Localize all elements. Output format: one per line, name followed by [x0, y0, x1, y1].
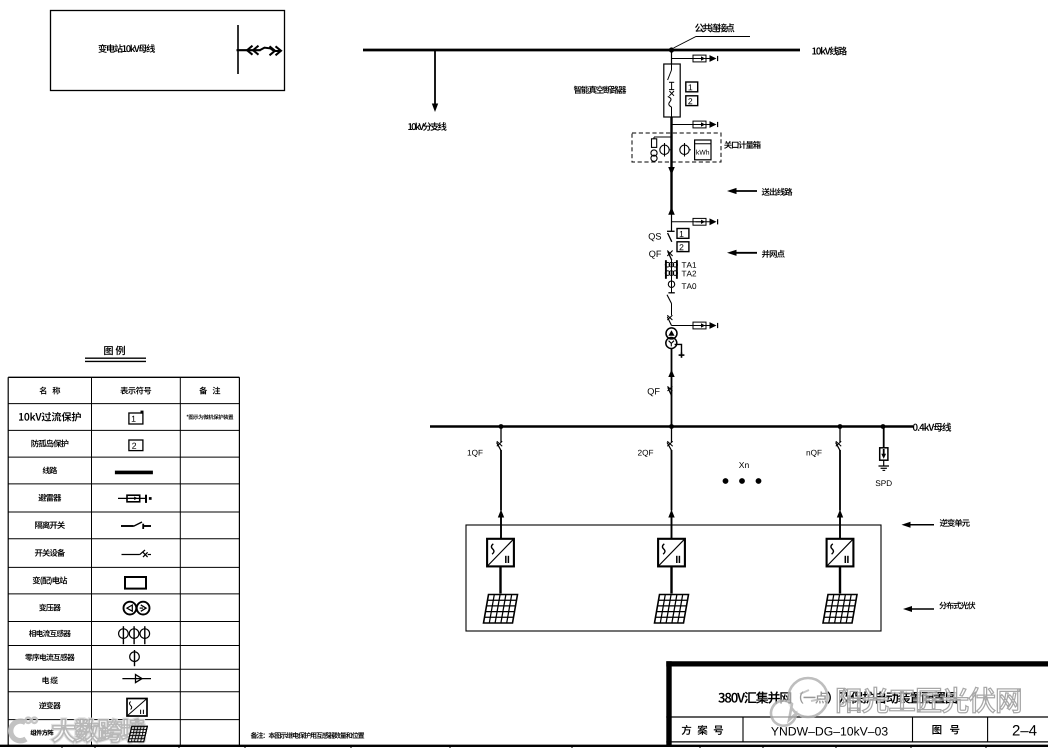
- legend name 相电流互感器: [29, 630, 36, 637]
- transformer winding 2: [666, 338, 677, 349]
- phase CT TA1 TA2 bars: [665, 260, 667, 279]
- wire PCC to breaker: [671, 50, 673, 64]
- legend sym: PV array: [128, 726, 147, 742]
- title block top border: [666, 661, 1048, 666]
- legend sym: arrester: [118, 497, 146, 499]
- feeder nQF wire: [839, 427, 841, 443]
- legend name 逆变器: [39, 702, 46, 709]
- feeder breaker 1QF: [497, 441, 502, 446]
- label 送出线路 with arrow: [735, 190, 757, 192]
- wire to QS: [671, 213, 673, 231]
- surge arrester tap upper: [672, 58, 710, 60]
- legend name 零序电流互感器: [25, 654, 32, 661]
- feeder breaker nQF: [836, 441, 841, 446]
- legend name 避雷器: [38, 494, 46, 502]
- title text: [718, 693, 724, 703]
- label SPD: [876, 480, 881, 486]
- node: point of common coupling: [669, 47, 674, 52]
- surge protective device SPD wire: [883, 427, 885, 448]
- feeder breaker 2QF: [667, 441, 672, 446]
- gateway metering cabinet dashed box: [632, 133, 721, 162]
- scheme number: [771, 727, 779, 735]
- PT windings double circle: [651, 150, 657, 156]
- breaker internals: [671, 64, 673, 70]
- bottom note: [251, 732, 258, 739]
- legend sym: line: [115, 471, 153, 475]
- protection 1 box: [686, 82, 698, 92]
- legend sym: protection 1: [129, 413, 143, 424]
- feeder 1QF wire to inverter: [500, 450, 502, 511]
- label 0.4kV母线: [913, 424, 918, 431]
- SPD box: [880, 448, 888, 460]
- neutral grounding: [675, 344, 682, 353]
- feeder 2QF wire to inverter: [671, 450, 673, 511]
- 0.4kV busbar: [430, 425, 913, 428]
- DC wire at x=840: [839, 566, 841, 593]
- PT branch wire: [654, 136, 672, 138]
- legend name 线路: [43, 467, 50, 474]
- legend sym: phase CT: [122, 626, 124, 644]
- TA1 circles: [665, 262, 670, 267]
- transformer winding 1 delta: [666, 328, 677, 339]
- legend name 变压器: [39, 604, 46, 611]
- legend sym: disconnector: [121, 525, 134, 527]
- legend name 电缆: [42, 677, 49, 684]
- legend title 图例: [104, 346, 113, 355]
- legend name 变(配)电站: [33, 576, 41, 584]
- legend note row1: [186, 415, 188, 417]
- outgoing line down arrow: [668, 167, 675, 175]
- smart vacuum circuit breaker box: [664, 64, 680, 117]
- title row divider: [666, 716, 1048, 718]
- legend sym: substation rect: [125, 577, 146, 589]
- legend table grid: [8, 376, 239, 378]
- protection 1 box lower: [677, 229, 689, 239]
- label 10kV分支线: [408, 123, 412, 130]
- 10kV overhead line bus: [363, 49, 800, 52]
- label Xn: [739, 462, 744, 468]
- cropped lower sheet row dividers: [61, 745, 63, 748]
- breaker above transformer: [667, 315, 672, 320]
- legend sym: protection 2: [129, 440, 143, 451]
- title block left border: [666, 661, 671, 746]
- legend sym: inverter: [127, 699, 147, 717]
- label 变电站10kV母线: [98, 44, 106, 53]
- DC wire at x=671.5: [670, 566, 672, 593]
- up arrow into inverter unit 1QF: [498, 510, 504, 518]
- label 逆变单元 with arrow: [909, 524, 934, 526]
- wire through CTs: [671, 260, 673, 292]
- surge arrester tap below breaker: [672, 124, 710, 126]
- feeder 1QF wire: [500, 427, 502, 443]
- label 方案号: [682, 725, 692, 735]
- ellipsis dots between feeders: [723, 478, 729, 484]
- title block col dividers: [742, 717, 744, 742]
- TA2 circles: [665, 271, 670, 276]
- protection 2 box lower: [677, 242, 689, 252]
- leader line 公共连接点: [674, 37, 751, 49]
- inverter square at x=840: [827, 539, 854, 567]
- sheet number 2-4: [1013, 725, 1020, 735]
- substation bus bar: [237, 25, 239, 74]
- DC wire at x=500.5: [499, 566, 501, 593]
- inverter unit enclosure: [466, 525, 881, 631]
- feeder 2QF wire: [671, 427, 673, 443]
- PT fuse: [652, 139, 657, 148]
- label 图 号: [932, 725, 941, 734]
- sheet bottom frame line: [0, 745, 1048, 747]
- surge arrester tap at transformer: [672, 325, 710, 327]
- inverter square at x=671.5: [658, 539, 685, 567]
- legend header: [39, 387, 46, 395]
- LV wire transformer to bus: [671, 349, 673, 427]
- label 智能真空断路器: [574, 86, 582, 94]
- label 并网点 with arrow: [735, 252, 757, 254]
- bus junction nodes: [499, 424, 504, 429]
- LV breaker QF: [668, 386, 673, 391]
- up arrow into inverter unit nQF: [837, 510, 843, 518]
- label 关口计量箱: [724, 141, 732, 149]
- outgoing line up arrow: [668, 207, 675, 215]
- wire to grid with chevron arrows and kink: [237, 49, 261, 51]
- CT phi right: [684, 143, 686, 157]
- circuit breaker QF: [667, 251, 672, 257]
- up arrow on LV wire: [668, 370, 674, 378]
- label 10kV线路: [812, 47, 816, 54]
- legend sym: switchgear: [122, 554, 140, 556]
- winding 2 wye mark: [669, 341, 672, 344]
- legend name 开关设备: [35, 549, 43, 556]
- legend sym: cable: [122, 678, 151, 680]
- watermark dashukuajing logo: [11, 718, 145, 743]
- legend name 防孤岛保护: [31, 439, 38, 447]
- CT phi left: [664, 143, 666, 157]
- legend name 隔离开关: [35, 521, 42, 528]
- PV array at x=671.5: [655, 595, 689, 624]
- protection 2 box: [686, 96, 698, 106]
- PV array at x=840: [823, 595, 857, 624]
- 10kV branch feeder wire: [434, 50, 436, 104]
- label 分布式光伏 with arrow: [911, 608, 935, 610]
- disconnector QS: [667, 230, 675, 232]
- title block bottom border: [666, 741, 1048, 743]
- wire through metering box: [670, 117, 672, 213]
- disconnector above transformer: [667, 295, 672, 304]
- watermark solar logo bubbles: [771, 678, 827, 726]
- energy meter kWh: [695, 140, 711, 160]
- legend name 10kV过流保护: [19, 413, 23, 421]
- zero-sequence CT TA0: [668, 281, 674, 287]
- substation 10kV busbar box: [51, 11, 285, 91]
- surge arrester tap at user side: [672, 221, 710, 223]
- legend name 组件方阵 redraw: [31, 730, 37, 736]
- SPD ground: [883, 460, 885, 466]
- legend name 组件方阵: [31, 730, 37, 736]
- legend sym: PV array redraw: [128, 726, 147, 742]
- up arrow into inverter unit 2QF: [668, 510, 674, 518]
- legend sym: zero-seq CT: [134, 650, 136, 666]
- watermark yangguang text: [837, 687, 1020, 713]
- feeder nQF wire to inverter: [839, 450, 841, 511]
- legend sym: transformer: [123, 602, 136, 615]
- inverter square at x=500.5: [487, 539, 514, 567]
- PV array at x=500.5: [484, 595, 518, 624]
